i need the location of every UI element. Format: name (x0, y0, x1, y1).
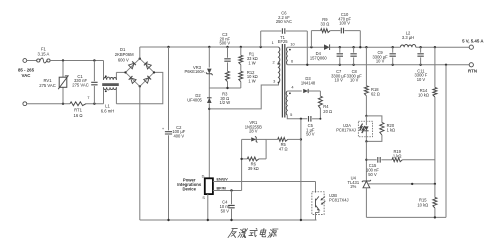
node C15 junction (365, 159, 367, 161)
wire bridge right return (116, 72, 162, 103)
node bias tap junction (300, 118, 302, 120)
optocoupler U2B (315, 182, 317, 193)
capacitor C5 (287, 115, 307, 119)
wire L1 to bridge left (116, 71, 125, 73)
node C11 top junction (419, 46, 421, 48)
bridge rectifier D1 (126, 59, 155, 87)
node 5V output terminal (469, 45, 473, 49)
svg-text:EN/UV: EN/UV (217, 177, 229, 181)
wire bias return (300, 119, 302, 220)
transformer T1 bias winding (286, 91, 287, 115)
inductor L1 (common-mode choke) (103, 61, 105, 80)
capacitor C11 (420, 47, 422, 53)
node drain junction (208, 108, 210, 110)
diode D4 (324, 44, 330, 50)
resistor R1 (240, 47, 242, 55)
node C4 bottom junction (230, 219, 232, 221)
node C9 bottom junction (392, 64, 394, 66)
svg-text:UF4005: UF4005 (187, 97, 202, 102)
svg-text:1 kΩ: 1 kΩ (387, 128, 396, 133)
svg-text:250 VAC: 250 VAC (276, 19, 292, 24)
wire bridge top to DC rail (139, 47, 141, 59)
capacitor C6 (260, 31, 262, 47)
svg-text:3: 3 (273, 78, 275, 83)
diode D3 (287, 90, 302, 92)
svg-text:5: 5 (290, 112, 292, 117)
svg-text:275 VAC: 275 VAC (39, 83, 55, 88)
resistor R19 (392, 158, 402, 162)
node C7 top junction (339, 46, 341, 48)
svg-text:3.15 A: 3.15 A (37, 52, 49, 57)
node C8 bottom junction (352, 64, 354, 66)
svg-text:P6KE160A: P6KE160A (184, 69, 204, 74)
resistor R4 (319, 91, 321, 96)
zener VR1 (242, 138, 251, 140)
svg-text:33 Ω: 33 Ω (321, 21, 330, 26)
svg-text:F1: F1 (41, 46, 47, 51)
svg-text:10 kΩ: 10 kΩ (418, 93, 429, 98)
svg-text:16 Ω: 16 Ω (74, 113, 83, 118)
node R6 left junction (240, 158, 242, 160)
thermistor RT1 (70, 102, 86, 106)
node bias return junction (300, 219, 302, 221)
svg-text:39 kΩ: 39 kΩ (248, 166, 259, 171)
node C2 top junction (167, 46, 169, 48)
capacitor C2 (168, 47, 170, 130)
svg-text:RT1: RT1 (74, 108, 83, 113)
svg-text:EF25: EF25 (278, 39, 289, 44)
node VR3 top junction (208, 46, 210, 48)
node IC source junction (207, 219, 209, 221)
resistor R5 (266, 138, 278, 140)
svg-text:Device: Device (182, 186, 196, 191)
node C8 top junction (352, 46, 354, 48)
node junction C1 bottom (93, 103, 95, 105)
node AC input N terminal (23, 102, 27, 106)
node C6 top junction (260, 46, 262, 48)
wire RTN riser (445, 65, 447, 218)
svg-text:62 Ω: 62 Ω (371, 92, 380, 97)
svg-text:2: 2 (273, 59, 275, 64)
svg-text:6: 6 (291, 59, 293, 64)
resistor R20 (366, 116, 382, 123)
svg-text:6.6 mH: 6.6 mH (101, 108, 115, 113)
svg-text:1N4148: 1N4148 (301, 80, 316, 85)
node snubber left junction (310, 46, 312, 48)
svg-text:PC817X4J: PC817X4J (329, 198, 349, 203)
svg-text:400 V: 400 V (173, 133, 184, 138)
svg-text:20 Ω: 20 Ω (323, 109, 332, 114)
node R15 bottom junction (434, 216, 436, 218)
node U2A bottom junction (365, 140, 367, 142)
node C6 bottom junction (306, 64, 308, 66)
wire RTN rail (287, 64, 469, 66)
resistor R12 (239, 71, 243, 81)
svg-text:VAC: VAC (22, 73, 32, 78)
node junction RV1 top (62, 59, 64, 61)
node REF corner junction (411, 183, 413, 185)
capacitor C4 (231, 191, 233, 205)
node R18 top junction (365, 46, 367, 48)
svg-text:1 W: 1 W (248, 60, 255, 65)
node C4 junction (230, 189, 232, 191)
node RTN terminal (469, 63, 473, 67)
node C7 bottom junction (339, 64, 341, 66)
transformer T1 secondary winding (286, 47, 289, 65)
varistor RV1 (62, 61, 64, 78)
capacitor C3 (227, 47, 229, 58)
node R14 top junction (434, 46, 436, 48)
svg-text:50 V: 50 V (221, 208, 230, 213)
svg-text:28 V: 28 V (249, 129, 258, 134)
svg-text:85 - 265: 85 - 265 (18, 68, 35, 73)
svg-text:100 V: 100 V (339, 21, 350, 26)
node C11 bottom junction (419, 64, 421, 66)
diode D2 (208, 88, 210, 98)
node C3 top junction (226, 46, 228, 48)
resistor R18 (365, 47, 367, 86)
wire VR1-R6 right join (265, 139, 267, 159)
capacitor C9 (392, 47, 394, 53)
resistor R6 (242, 158, 248, 160)
svg-text:PC817X4J: PC817X4J (336, 128, 356, 133)
resistor R3 (226, 71, 230, 81)
svg-text:3.3 µH: 3.3 µH (402, 35, 414, 40)
capacitor C7 (339, 47, 341, 53)
node snubber right junction (359, 46, 361, 48)
wire primary ground rail (140, 219, 317, 221)
svg-text:600 V: 600 V (118, 58, 129, 63)
node R4-C5 corner junction (319, 118, 321, 120)
wire fuse to L1 top (50, 60, 103, 62)
wire clamp node line (209, 87, 241, 89)
svg-text:RTN: RTN (468, 68, 477, 73)
snubber resistor R9 and capacitor C10 (310, 31, 312, 48)
svg-text:5 V, 5.45 A: 5 V, 5.45 A (462, 38, 484, 43)
node clamp junction (226, 87, 228, 89)
caption flyback power supply (228, 228, 278, 237)
resistor R15 (434, 184, 436, 198)
wire drain route from T1 pin3 (209, 83, 278, 109)
wire T1 pin10 to D4 (287, 46, 324, 48)
svg-text:50 V: 50 V (368, 172, 377, 177)
node C9 top junction (392, 46, 394, 48)
svg-text:275 VAC: 275 VAC (72, 83, 88, 88)
svg-text:2KBP06M: 2KBP06M (115, 52, 134, 57)
node RTN riser junction (445, 64, 447, 66)
transformer T1 primary winding (279, 47, 280, 83)
node AC input L terminal (23, 59, 27, 63)
wire U2A to TL431 (365, 141, 367, 181)
svg-text:1/2 W: 1/2 W (219, 100, 230, 105)
svg-text:157Q060: 157Q060 (310, 55, 328, 60)
svg-text:1 kΩ: 1 kΩ (393, 153, 402, 158)
optocoupler U2A (358, 121, 372, 137)
svg-text:BP/M: BP/M (217, 186, 226, 190)
node R1 top junction (240, 46, 242, 48)
transformer T1 core (282, 44, 284, 118)
wire VR1-R6 left join (241, 139, 243, 190)
wire BP/M line (213, 190, 242, 192)
wire bridge bottom to ground rail (139, 86, 141, 220)
wire secondary ground bus (366, 216, 446, 218)
svg-text:10 V: 10 V (417, 77, 426, 82)
capacitor C8 (353, 47, 355, 53)
wire IC source to ground rail (207, 194, 209, 220)
svg-text:47 Ω: 47 Ω (279, 147, 288, 152)
wire top DC+ rail (140, 46, 279, 48)
svg-text:500 V: 500 V (219, 41, 230, 46)
svg-text:2%: 2% (350, 184, 356, 189)
wire 5V output rail (330, 46, 401, 48)
svg-text:50 V: 50 V (306, 132, 315, 137)
compensation capacitor C15 (366, 159, 376, 161)
svg-text:10 V: 10 V (376, 59, 385, 64)
svg-text:10 kΩ: 10 kΩ (417, 202, 428, 207)
IC U1 Power Integrations device (205, 178, 213, 194)
node U2A top junction (365, 115, 367, 117)
node divider REF junction (434, 183, 436, 185)
svg-text:10 V: 10 V (350, 78, 359, 83)
svg-text:1 W: 1 W (248, 79, 255, 84)
node junction RV1 bottom (62, 103, 64, 105)
svg-text:10 V: 10 V (334, 78, 343, 83)
inductor L2 (400, 44, 415, 47)
node junction C1 top (93, 59, 95, 61)
node R5 junction (300, 138, 302, 140)
resistor R14 (434, 47, 436, 87)
capacitor C1 (93, 61, 95, 82)
wire EN/UV line (213, 181, 316, 183)
fuse F1 (37, 59, 40, 62)
svg-text:D: D (202, 175, 205, 179)
wire bottom input (27, 103, 70, 105)
zener VR3 (208, 47, 210, 68)
node C2 bottom junction (167, 219, 169, 221)
wire top input to fuse (27, 60, 37, 62)
shunt regulator U4 TL431 (362, 180, 371, 182)
svg-text:1: 1 (272, 40, 274, 45)
